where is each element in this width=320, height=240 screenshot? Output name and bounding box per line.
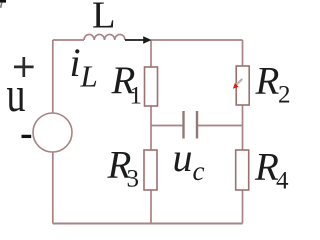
- svg-text:4: 4: [276, 168, 289, 195]
- svg-text:L: L: [92, 0, 116, 37]
- wire: junction node to R1 top: [150, 40, 152, 67]
- resistor R3: [144, 150, 157, 190]
- wire: left branch lower: [52, 152, 54, 224]
- label R3: [107, 144, 140, 193]
- wire: top rail to R2 top: [242, 40, 244, 66]
- svg-text:3: 3: [127, 166, 140, 193]
- resistor R4: [236, 150, 249, 190]
- adjustment arrow shaft on R2: [237, 79, 243, 85]
- label - (source polarity): [22, 135, 32, 138]
- resistor R1: [145, 67, 158, 106]
- wire: R2 bottom to R4 top: [242, 105, 244, 150]
- label R4: [254, 146, 289, 195]
- voltage source u: [33, 113, 72, 152]
- label i_L: [70, 40, 98, 94]
- wire: capacitor right lead: [197, 125, 243, 127]
- label R2: [255, 60, 291, 109]
- label R1: [111, 59, 143, 110]
- svg-text:c: c: [193, 156, 205, 186]
- wire: top right of junction: [151, 39, 243, 41]
- svg-text:1: 1: [130, 83, 143, 110]
- svg-text:u: u: [7, 66, 26, 122]
- wire: left branch upper: [52, 40, 54, 113]
- current arrow i_L head: [143, 36, 151, 44]
- svg-text:i: i: [70, 40, 81, 85]
- svg-text:L: L: [80, 59, 98, 94]
- svg-text:R: R: [255, 60, 280, 103]
- capacitor C right plate: [196, 111, 198, 139]
- wire: R4 bottom to bottom rail: [242, 190, 244, 224]
- current arrow i_L shaft: [125, 39, 145, 41]
- svg-text:u: u: [173, 135, 193, 180]
- wire: top left segment: [53, 39, 84, 41]
- wire: bottom: [53, 223, 243, 225]
- capacitor C left plate: [182, 111, 184, 139]
- adjustment arrow red head on R2: [233, 83, 239, 89]
- wire: capacitor left lead: [151, 125, 184, 127]
- wire: R1 bottom to R3 top: [150, 106, 152, 150]
- svg-text:2: 2: [278, 82, 291, 109]
- wire: R3 bottom to bottom rail: [150, 190, 152, 224]
- corner artifact mark: [0, 0, 6, 8]
- label + (source polarity): [14, 57, 34, 77]
- resistor R2: [236, 66, 249, 105]
- inductor L coil: [84, 34, 125, 40]
- label u_c: [173, 135, 205, 186]
